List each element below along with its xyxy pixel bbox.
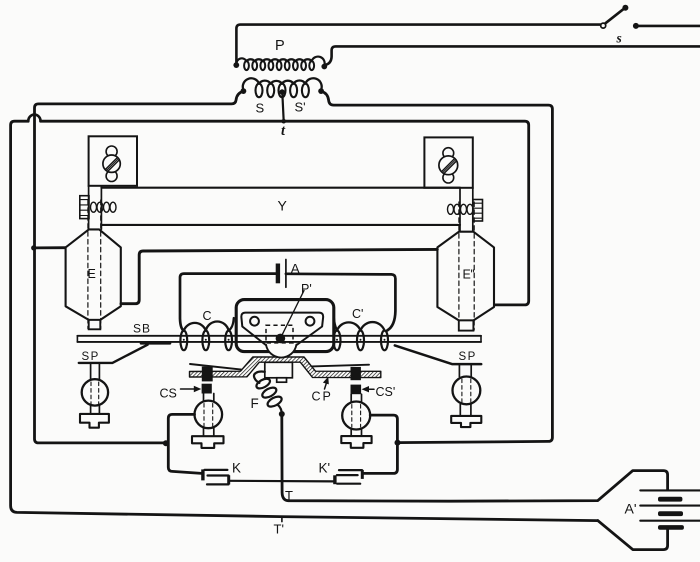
armature pivot dot P' bbox=[276, 334, 286, 344]
svg-text:E: E bbox=[88, 267, 96, 281]
wire K to K' bbox=[230, 480, 334, 483]
bolt and nut left end of bar Y bbox=[80, 186, 116, 229]
battery A' bbox=[640, 490, 700, 529]
wire E left lead bbox=[34, 246, 67, 249]
wire from E'' right side up and across to left outer vertical (t-line) bbox=[41, 121, 529, 305]
svg-text:P: P bbox=[275, 38, 285, 54]
contact post left (SP) bbox=[80, 363, 109, 427]
svg-text:E'': E'' bbox=[463, 268, 475, 282]
switch s bbox=[601, 5, 700, 29]
svg-text:T: T bbox=[285, 488, 293, 503]
bracket yoke around armature bbox=[236, 300, 334, 352]
electromagnet cup E bbox=[66, 200, 121, 329]
electromagnet cup E'' bbox=[437, 202, 494, 331]
wire from primary P left terminal up to switch s bbox=[236, 25, 600, 64]
screw fixture box top-left bbox=[89, 136, 137, 186]
junction dot right bottom bbox=[395, 440, 401, 446]
clamp spring line left bbox=[190, 364, 242, 370]
pivot plate with holes bbox=[241, 313, 323, 345]
svg-text:CP: CP bbox=[312, 390, 333, 404]
tick at T' bbox=[281, 517, 283, 522]
spring F bbox=[254, 372, 285, 417]
induction coil C' bbox=[334, 318, 389, 350]
svg-text:C': C' bbox=[352, 307, 363, 321]
svg-text:F: F bbox=[251, 396, 259, 411]
svg-text:A': A' bbox=[625, 501, 637, 517]
support bar SB bbox=[77, 336, 481, 344]
svg-text:S: S bbox=[256, 101, 265, 116]
svg-text:Y: Y bbox=[278, 198, 288, 214]
wire left transmitter post to K bbox=[168, 414, 201, 473]
dashed armature box bbox=[266, 325, 293, 343]
battery A bbox=[276, 260, 286, 288]
svg-text:K: K bbox=[232, 461, 241, 476]
wire right transmitter post to K' bbox=[363, 415, 398, 473]
condenser K' bbox=[335, 470, 362, 484]
wire battery A right to coil C' bbox=[286, 274, 396, 331]
svg-text:C: C bbox=[203, 309, 212, 323]
clamp spring line right bbox=[312, 365, 370, 367]
junction dot at t line bbox=[281, 119, 286, 124]
condenser K bbox=[203, 469, 229, 484]
bolt and nut right end of bar Y bbox=[448, 188, 483, 232]
svg-text:S': S' bbox=[295, 100, 306, 115]
label CS' with arrow bbox=[362, 385, 396, 399]
svg-text:SP: SP bbox=[459, 351, 477, 363]
induction coil C bbox=[180, 318, 233, 350]
clamp block CS' lower-right bbox=[351, 385, 362, 395]
svg-text:CS': CS' bbox=[376, 385, 396, 399]
contact post right (SP) bbox=[451, 364, 481, 427]
wire from primary P right terminal to right edge bbox=[324, 46, 700, 65]
corrugated diaphragm CP bbox=[190, 357, 381, 378]
transformer primary coil P bbox=[233, 57, 327, 71]
junction dot left bottom bbox=[163, 440, 169, 446]
svg-text:SB: SB bbox=[133, 322, 151, 336]
armature block bbox=[265, 362, 293, 382]
wire F down through K junction to T and battery A' top bbox=[282, 414, 668, 501]
label CS with arrow bbox=[160, 386, 202, 401]
transmitter post right (under CS') bbox=[341, 394, 371, 448]
wire secondary right terminal to right vertical down to bottom junction bbox=[321, 91, 552, 442]
bar Y bbox=[101, 188, 460, 225]
svg-text:CS: CS bbox=[160, 387, 177, 401]
svg-text:SP: SP bbox=[82, 351, 100, 363]
transmitter post left (under CS) bbox=[192, 394, 224, 448]
svg-text:K': K' bbox=[319, 461, 331, 476]
svg-text:s: s bbox=[616, 31, 622, 46]
contact bar SP left bbox=[79, 345, 148, 363]
svg-text:P': P' bbox=[301, 282, 312, 296]
wire hop over inner-left vertical bbox=[28, 115, 40, 122]
pointer line to P' bbox=[282, 291, 304, 335]
center tap wire t bbox=[282, 92, 283, 121]
svg-text:T': T' bbox=[274, 522, 284, 537]
transformer secondary coil S S' bbox=[241, 78, 325, 97]
clamp block CS' upper-right bbox=[351, 367, 361, 380]
junction dot on left vertical (E tap) bbox=[31, 245, 36, 250]
clamp block CS lower-left bbox=[202, 384, 212, 394]
wire outer-left vertical down to bottom wire T' bbox=[11, 121, 598, 520]
wire funnel into battery A' bottom bbox=[598, 521, 668, 550]
wire secondary left terminal to inner-left vertical down to bottom junction bbox=[35, 91, 244, 443]
contact bar SP right bbox=[395, 345, 481, 364]
pivot boss arc bbox=[266, 345, 296, 358]
screw fixture box top-right bbox=[424, 137, 472, 187]
label CP with arrow bbox=[312, 377, 333, 404]
wire connecting E to E'' (upper run) bbox=[121, 249, 437, 303]
clamp block CS upper-left bbox=[202, 367, 213, 382]
wire battery A left to coil C bbox=[180, 274, 276, 331]
